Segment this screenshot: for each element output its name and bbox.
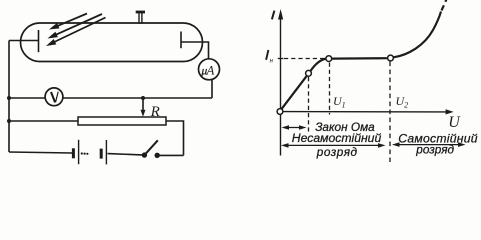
wire cathode lead <box>9 40 39 42</box>
junction dot wiper <box>141 96 145 100</box>
discharge tube <box>21 23 203 62</box>
node saturation start <box>326 56 332 62</box>
label I axis <box>272 11 275 20</box>
wire V-line right <box>63 97 212 99</box>
node origin <box>277 109 283 115</box>
dashed In level <box>284 58 325 60</box>
svg-text:U: U <box>448 114 461 131</box>
wire R right <box>166 121 184 155</box>
node saturation end <box>388 55 394 61</box>
node knee <box>306 70 312 76</box>
microammeter uA <box>199 59 220 80</box>
curve ohmic segment <box>282 76 307 109</box>
range arrow Zakon Oma <box>282 125 307 130</box>
wire bottom left <box>9 152 72 153</box>
tube pump stem <box>136 12 145 24</box>
svg-text:A: A <box>206 63 215 77</box>
wire battery to switch <box>108 154 143 155</box>
wire R left <box>9 120 78 122</box>
ionizing ray 3 <box>46 18 106 47</box>
curve steep rise <box>394 12 441 58</box>
junction dot R-line <box>7 119 11 123</box>
switch <box>142 140 160 158</box>
axis X <box>283 111 448 113</box>
voltmeter V <box>45 88 63 106</box>
curve knee to plateau <box>310 59 326 72</box>
label In <box>266 50 274 65</box>
wire V-line left <box>9 97 45 99</box>
rheostat wiper arrow <box>141 98 146 117</box>
dashed vertical at first point <box>308 77 310 132</box>
wire left vertical <box>8 41 10 153</box>
wire switch to corner <box>160 154 184 156</box>
curve dashed continuation <box>442 0 449 11</box>
ionizing ray 2 <box>48 14 103 39</box>
ionizing ray 1 <box>49 14 87 30</box>
junction dot V-line <box>7 96 11 100</box>
electrode left <box>38 30 40 52</box>
svg-text:R: R <box>150 104 160 120</box>
svg-text:розряд: розряд <box>316 145 358 159</box>
wire uA to V-line <box>211 80 213 98</box>
resistor R body <box>78 117 166 125</box>
battery <box>73 140 106 165</box>
electrode right <box>180 32 182 49</box>
dashed vertical at U1 <box>329 63 331 115</box>
dashed vertical at U2 <box>389 62 391 163</box>
curve saturation plateau <box>332 57 388 60</box>
svg-text:Несамостійний: Несамостійний <box>292 131 382 145</box>
tick In on Y axis <box>278 58 284 60</box>
range arrow samostiynyi <box>392 142 466 147</box>
label V <box>51 92 58 103</box>
range arrow nesamostiynyi <box>281 143 386 148</box>
axis Y <box>280 17 282 156</box>
svg-text:розряд: розряд <box>415 142 454 156</box>
wire anode lead <box>181 42 209 59</box>
